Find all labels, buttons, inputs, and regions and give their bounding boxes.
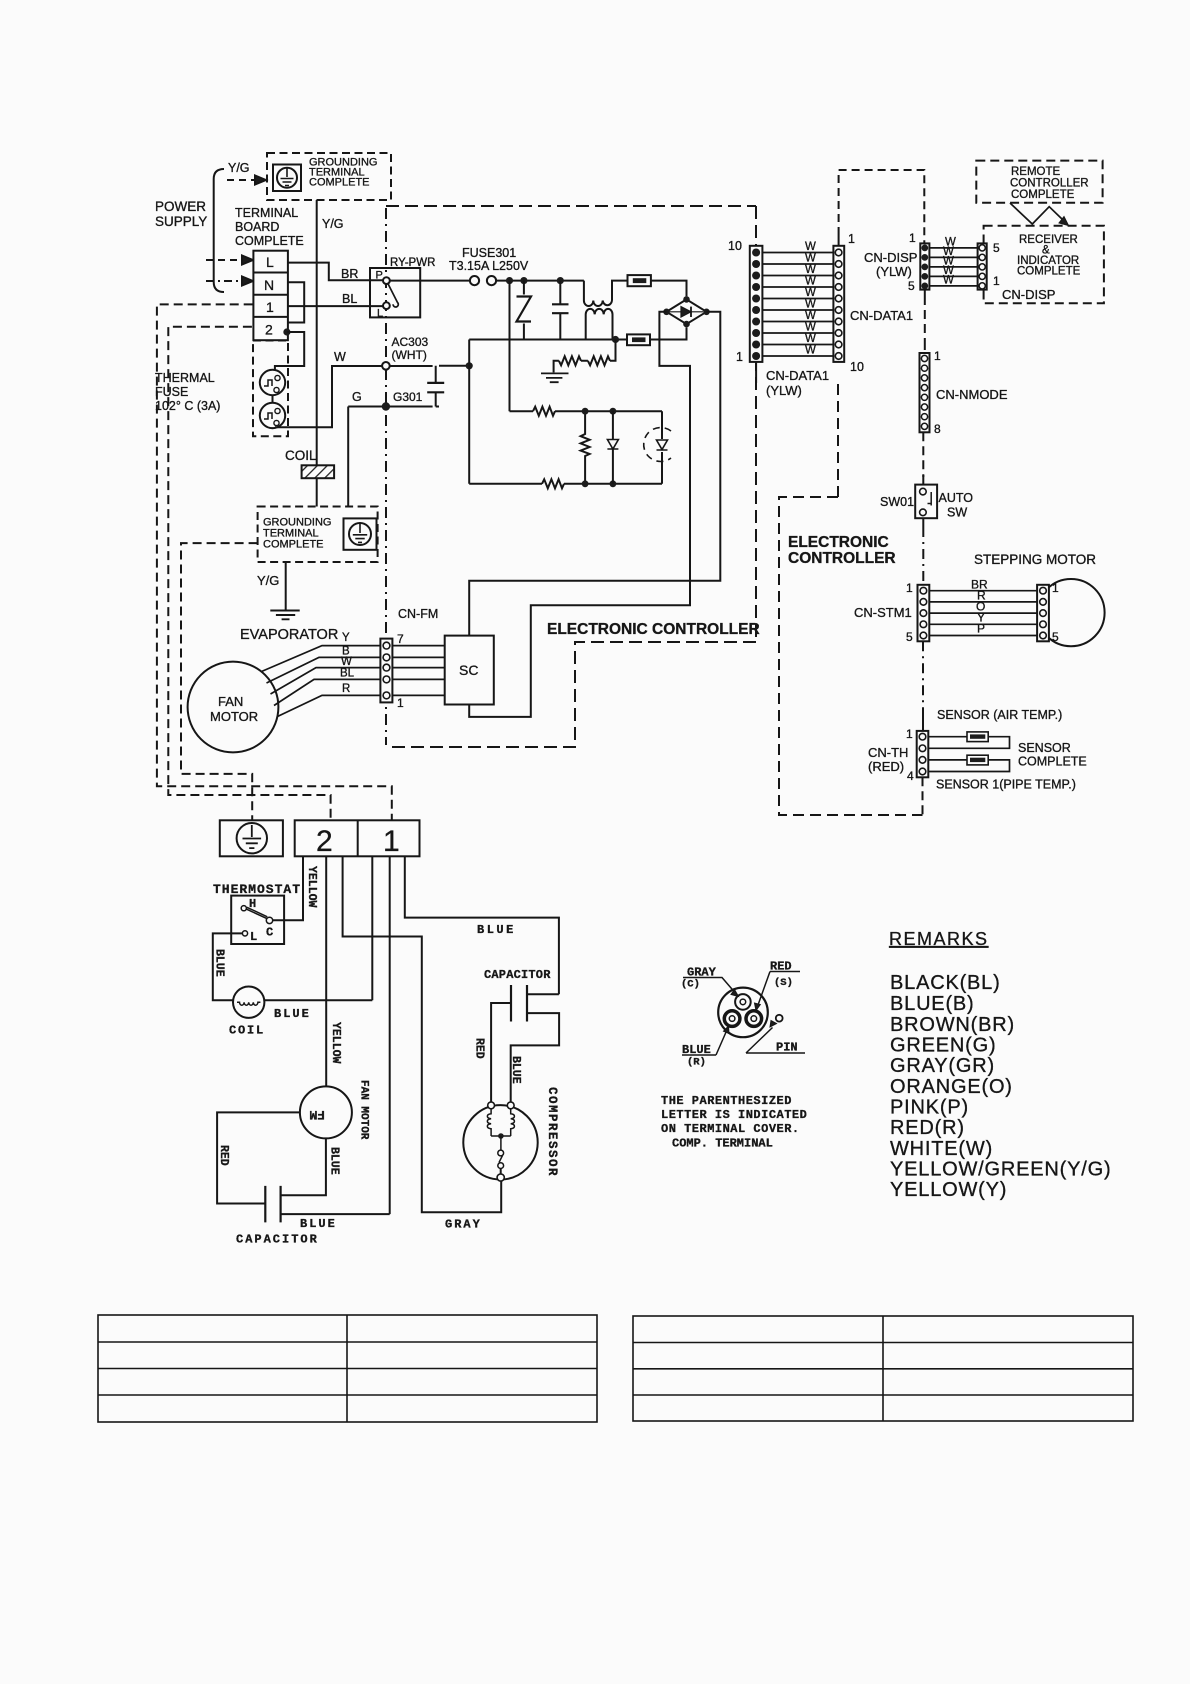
svg-text:P: P [376, 270, 383, 282]
wire compressor capacitor top lead [527, 993, 559, 995]
svg-text:W: W [805, 345, 816, 357]
electronic controller left dash-dot boundary left [385, 208, 387, 745]
svg-text:G: G [352, 390, 362, 404]
svg-text:(WHT): (WHT) [392, 348, 427, 362]
svg-text:1: 1 [993, 274, 1000, 288]
svg-text:5: 5 [993, 241, 1000, 255]
wire fan capacitor to terminal 1 wire [281, 1213, 390, 1215]
svg-text:W: W [334, 350, 346, 364]
svg-text:RED(R): RED(R) [890, 1117, 965, 1139]
svg-text:MOTOR: MOTOR [210, 709, 258, 724]
svg-text:FUSE: FUSE [155, 385, 188, 399]
dashed link CN-DISP to CN-NMODE [924, 290, 926, 353]
svg-text:BLUE: BLUE [274, 1007, 311, 1021]
AC303 node wire (W) [381, 365, 433, 367]
stub above CN-DATA1 right solid [838, 235, 840, 246]
varistor Z [517, 281, 532, 340]
svg-text:(YLW): (YLW) [876, 264, 912, 279]
svg-text:BOARD: BOARD [235, 220, 279, 234]
G wire [348, 406, 439, 408]
svg-text:CN-DISP: CN-DISP [864, 250, 917, 265]
ferrite bead bottom [627, 334, 650, 345]
svg-text:FM: FM [309, 1107, 325, 1122]
ferrite bead top [628, 275, 651, 286]
thermal fuse 1 [260, 370, 285, 395]
svg-text:N: N [264, 277, 274, 293]
wire compressor capacitor right loop to S (blue) [511, 1013, 559, 1101]
table left [98, 1315, 597, 1422]
stepping motor circle [1037, 579, 1104, 646]
wire terminal 2 middle to fan motor (yellow) [325, 856, 327, 1086]
jumper bracket terminal N [288, 282, 304, 322]
opto feeder vertical from top wire [509, 281, 511, 412]
svg-text:COMPRESSOR: COMPRESSOR [545, 1087, 559, 1177]
svg-text:(S): (S) [774, 977, 793, 989]
RY-PWR L terminal [383, 302, 390, 309]
svg-text:W: W [341, 656, 352, 668]
svg-text:FAN MOTOR: FAN MOTOR [358, 1080, 370, 1140]
svg-text:POWER: POWER [155, 199, 206, 214]
photocoupler LED [644, 428, 671, 462]
svg-text:BLUE: BLUE [213, 949, 226, 977]
fan motor circle [188, 662, 279, 753]
svg-text:COMPLETE: COMPLETE [263, 539, 324, 551]
electronic controller left dashed boundary bottom-right step [388, 642, 756, 747]
earth terminal box (bottom) [220, 820, 283, 856]
FM fan motor circle [300, 1086, 352, 1138]
electronic controller left dashed boundary right [755, 206, 757, 642]
svg-text:C: C [266, 926, 273, 940]
svg-text:SW01: SW01 [880, 495, 914, 509]
wire terminal L to RY-PWR P (BR) [288, 263, 383, 281]
svg-text:1: 1 [1052, 581, 1059, 595]
svg-text:W: W [805, 241, 816, 253]
wire ferrite bottom to bridge bottom vertex [650, 327, 687, 339]
svg-text:BLUE: BLUE [509, 1056, 522, 1084]
junction dots opto network [582, 408, 589, 415]
outdoor unit outer dashed boundary [157, 304, 392, 820]
fan motor lead BL [274, 679, 380, 705]
svg-text:CN-DATA1: CN-DATA1 [850, 308, 913, 323]
electronic controller right dashed link up to CN-DATA1 [837, 383, 839, 497]
wires CN-FM to SC [392, 646, 444, 696]
dash-dot arrow into terminal N [206, 280, 245, 282]
junction dot W node [466, 362, 473, 369]
svg-text:CN-FM: CN-FM [398, 607, 438, 621]
connector CN-STM1 [918, 585, 930, 642]
grounding terminal complete box (top) [267, 153, 391, 200]
svg-text:Y: Y [342, 632, 350, 644]
svg-text:7: 7 [397, 632, 404, 646]
svg-text:1: 1 [848, 232, 855, 246]
svg-text:W: W [805, 333, 816, 345]
svg-text:L: L [377, 308, 383, 320]
svg-text:5: 5 [906, 630, 913, 644]
svg-text:BLUE: BLUE [300, 1217, 337, 1231]
svg-text:1: 1 [909, 231, 916, 245]
outdoor unit inner dashed boundary [168, 327, 330, 821]
wires CN-STM1 to stepping motor [929, 591, 1037, 636]
junction dot lower wire ground chain [612, 336, 619, 343]
svg-text:COMPLETE: COMPLETE [309, 177, 370, 189]
infrared zigzag arrow [1010, 203, 1063, 224]
svg-text:L: L [250, 930, 257, 944]
svg-text:W: W [805, 253, 816, 265]
wire terminal 1 to RY-PWR L (BL) [288, 305, 383, 307]
svg-text:ON TERMINAL COVER.: ON TERMINAL COVER. [661, 1122, 800, 1136]
svg-text:TERMINAL: TERMINAL [235, 206, 298, 220]
connector CN-DISP (YLW) [920, 243, 929, 289]
svg-text:REMOTE: REMOTE [1011, 166, 1061, 178]
fan capacitor [265, 1186, 280, 1223]
svg-text:COMP. TERMINAL: COMP. TERMINAL [672, 1137, 773, 1151]
RY-PWR switch arm [388, 284, 398, 307]
svg-text:W: W [805, 299, 816, 311]
svg-text:YELLOW(Y): YELLOW(Y) [890, 1179, 1007, 1201]
svg-text:BL: BL [342, 292, 357, 306]
stub below CN-DATA1 left [755, 362, 757, 383]
sensor element air temp [967, 732, 988, 742]
pin detail [776, 1015, 783, 1022]
switch SW01 (auto sw) [915, 485, 937, 519]
svg-text:CONTROLLER: CONTROLLER [1010, 178, 1089, 190]
remote controller complete dashed box [976, 161, 1102, 203]
dashed arrow to grounding terminal [227, 179, 258, 181]
receiver and indicator complete dashed box [984, 226, 1104, 304]
svg-text:RED: RED [473, 1038, 486, 1059]
svg-text:2: 2 [265, 322, 273, 338]
svg-text:W: W [805, 310, 816, 322]
svg-text:CN-DISP: CN-DISP [1002, 287, 1055, 302]
junction dot top wire / capacitor [557, 277, 564, 284]
RY-PWR P terminal [383, 277, 390, 284]
svg-text:COIL: COIL [285, 448, 317, 463]
wire terminal 2 right to compressor (gray) [343, 856, 502, 1212]
svg-text:CN-DATA1: CN-DATA1 [766, 368, 829, 383]
svg-text:AC303: AC303 [392, 335, 429, 349]
svg-text:REMARKS: REMARKS [889, 929, 989, 949]
electronic controller right dashed boundary top [779, 497, 923, 815]
fan motor lead B [267, 657, 381, 683]
svg-text:CONTROLLER: CONTROLLER [788, 550, 896, 567]
svg-text:COMPLETE: COMPLETE [1011, 189, 1075, 201]
connector CN-DATA1 right [833, 246, 844, 362]
dashed link CN-DATA1 right up and over to CN-DISP [839, 170, 925, 243]
svg-text:P: P [977, 622, 985, 636]
sensor loop pipe temp [928, 760, 1009, 772]
wire ferrite top to bridge [651, 281, 687, 297]
dashed arrow into terminal L [206, 259, 245, 261]
power supply brace [214, 169, 224, 292]
connector CN-DATA1 (YLW) left [750, 246, 763, 362]
svg-text:CN-NMODE: CN-NMODE [936, 387, 1008, 402]
fan motor lead Y [262, 646, 381, 672]
dashed link CN-STM1 to CN-TH [922, 641, 924, 714]
svg-text:THERMAL: THERMAL [155, 371, 215, 385]
zener diode in opto network [607, 411, 618, 484]
fuse FUSE301 [470, 276, 496, 285]
sensor loop air temp [928, 737, 1009, 749]
wires W between CN-DATA1 halves [762, 253, 833, 357]
Y/G wire below coil [316, 478, 318, 506]
compressor circle [463, 1102, 537, 1181]
connector CN-TH (RED) [917, 731, 929, 777]
svg-text:CAPACITOR: CAPACITOR [484, 968, 551, 982]
svg-text:STEPPING MOTOR: STEPPING MOTOR [974, 552, 1096, 567]
opto lower rail with resistor [469, 479, 662, 488]
svg-text:1: 1 [383, 825, 400, 858]
svg-text:BR: BR [341, 267, 358, 281]
svg-text:W: W [805, 276, 816, 288]
RY-PWR relay box [370, 268, 420, 317]
compressor terminal detail circle [718, 988, 768, 1038]
G301 junction dot [382, 402, 390, 410]
wire RY-PWR P to fuse [390, 280, 470, 282]
svg-text:1: 1 [736, 350, 743, 364]
Y/G stem to earth [285, 562, 287, 610]
svg-text:1: 1 [266, 299, 274, 315]
wire thermal fuse 2 to W node [273, 366, 382, 428]
svg-text:YELLOW: YELLOW [305, 866, 318, 908]
wire terminal 1 middle to fan capacitor (blue) [389, 856, 391, 1214]
connector stepping motor [1037, 585, 1049, 642]
wire fan motor left to capacitor (red) [217, 1112, 300, 1203]
terminal strip 2|1 box [295, 820, 420, 858]
W labels CN-DISP [943, 237, 956, 287]
svg-text:Y/G: Y/G [257, 573, 279, 588]
thermostat box [231, 896, 284, 944]
svg-text:W: W [943, 275, 954, 287]
svg-text:(YLW): (YLW) [766, 383, 802, 398]
svg-text:SC: SC [459, 662, 478, 678]
svg-text:EVAPORATOR: EVAPORATOR [240, 627, 338, 643]
svg-text:AUTO: AUTO [939, 491, 974, 505]
main top wire after fuse [496, 280, 584, 282]
lower main wire [469, 339, 627, 341]
svg-text:SW: SW [947, 506, 967, 520]
svg-text:W: W [805, 322, 816, 334]
connector CN-NMODE [920, 353, 930, 432]
stepping motor wire labels [971, 578, 988, 636]
svg-text:10: 10 [728, 239, 742, 253]
svg-text:SENSOR 1(PIPE TEMP.): SENSOR 1(PIPE TEMP.) [936, 778, 1076, 792]
svg-text:L: L [266, 254, 274, 270]
svg-text:BL: BL [340, 668, 355, 680]
wire terminal 2 to thermal fuse [275, 332, 304, 370]
coil hatched block [302, 465, 335, 478]
svg-text:WHITE(W): WHITE(W) [890, 1138, 993, 1160]
svg-text:THE PARENTHESIZED: THE PARENTHESIZED [661, 1094, 792, 1108]
svg-text:1: 1 [397, 696, 404, 710]
svg-text:ELECTRONIC: ELECTRONIC [788, 534, 889, 551]
svg-text:5: 5 [1052, 630, 1059, 644]
wire bridge right vertex down to SC top rail [469, 312, 720, 636]
svg-text:RED: RED [217, 1145, 230, 1166]
svg-text:8: 8 [934, 422, 941, 436]
wire compressor capacitor left lead to C (red) [491, 1003, 511, 1102]
svg-text:YELLOW: YELLOW [329, 1022, 342, 1064]
terminal board complete box [253, 251, 288, 341]
earth ground symbol (psu) [541, 373, 569, 382]
indoor unit third dashed boundary [181, 543, 258, 820]
fan motor lead W [271, 668, 381, 694]
choke coil top winding [584, 281, 628, 306]
AC303 terminal circle [382, 362, 390, 370]
svg-text:BLUE: BLUE [328, 1147, 341, 1175]
svg-text:PINK(P): PINK(P) [890, 1097, 969, 1119]
opto loop right side with LED [661, 411, 663, 484]
svg-text:CN-TH: CN-TH [868, 745, 908, 760]
svg-text:COMPLETE: COMPLETE [1018, 755, 1087, 769]
svg-text:(RED): (RED) [868, 759, 904, 774]
G wire down to grounding terminal [347, 407, 349, 507]
svg-text:Y/G: Y/G [228, 161, 250, 175]
svg-text:BLUE(B): BLUE(B) [890, 993, 975, 1015]
svg-text:T3.15A L250V: T3.15A L250V [449, 259, 529, 273]
grounding terminal symbol (middle) [344, 518, 377, 549]
W labels CN-DATA1 [805, 241, 816, 357]
bridge rectifier D301 [663, 296, 710, 327]
svg-text:SENSOR: SENSOR [1018, 741, 1071, 755]
svg-text:COMPLETE: COMPLETE [235, 234, 304, 248]
fan lead labels [340, 632, 355, 695]
svg-text:102° C (3A): 102° C (3A) [155, 399, 220, 413]
svg-text:COIL: COIL [229, 1024, 265, 1038]
svg-text:SENSOR (AIR TEMP.): SENSOR (AIR TEMP.) [937, 708, 1062, 722]
compressor capacitor [511, 985, 527, 1022]
svg-text:Y/G: Y/G [322, 217, 344, 231]
wire bridge left vertex zigzag down [469, 312, 690, 717]
svg-text:FAN: FAN [218, 694, 243, 709]
svg-text:(R): (R) [687, 1057, 706, 1069]
svg-text:SUPPLY: SUPPLY [155, 214, 207, 229]
svg-text:RY-PWR: RY-PWR [390, 257, 435, 269]
svg-text:BLACK(BL): BLACK(BL) [890, 972, 1001, 994]
fan motor lead R [278, 695, 381, 716]
W node vertical through lower rail [468, 340, 470, 484]
capacitor AC303-G301 [427, 366, 444, 407]
thermal fuse dashed box [253, 341, 288, 437]
electronic controller left dashed boundary top [386, 205, 756, 207]
svg-text:W: W [805, 287, 816, 299]
svg-text:W: W [805, 264, 816, 276]
table right [633, 1316, 1133, 1421]
wires W CN-DISP to receiver [929, 248, 977, 286]
svg-text:2: 2 [316, 825, 333, 858]
wire AC303 to W junction [439, 365, 469, 367]
dashed link CN-NMODE to SW01 [922, 432, 924, 477]
svg-text:GRAY: GRAY [445, 1218, 482, 1232]
svg-text:FUSE301: FUSE301 [462, 246, 516, 260]
svg-text:CAPACITOR: CAPACITOR [236, 1233, 319, 1247]
svg-text:LETTER IS INDICATED: LETTER IS INDICATED [661, 1108, 807, 1122]
svg-text:CN-STM1: CN-STM1 [854, 605, 912, 620]
SC box [445, 636, 494, 705]
svg-text:BROWN(BR): BROWN(BR) [890, 1014, 1015, 1036]
connector CN-FM [380, 639, 392, 703]
svg-text:H: H [249, 897, 256, 911]
svg-text:(C): (C) [681, 979, 700, 991]
svg-text:1: 1 [906, 727, 913, 741]
connector receiver CN-DISP [978, 243, 987, 289]
svg-text:COMPLETE: COMPLETE [1017, 266, 1081, 278]
grounding terminal symbol (top) [273, 165, 301, 192]
resistor vertical in opto network [581, 411, 590, 484]
wire terminal 1 right to compressor capacitor (blue) [405, 856, 559, 994]
coil (bottom) [233, 987, 264, 1018]
svg-text:5: 5 [908, 279, 915, 293]
wire between thermal fuses [272, 395, 274, 403]
svg-text:ELECTRONIC CONTROLLER: ELECTRONIC CONTROLLER [547, 621, 760, 638]
junction dot terminal 2 [283, 328, 290, 335]
dash-dot link SW01 to CN-STM1 [922, 518, 924, 585]
junction dot top wire / varistor [520, 277, 527, 284]
junction dot top wire / opto feed [506, 277, 513, 284]
dashed link CN-TH to bottom boundary [922, 777, 924, 815]
choke coil bottom winding [586, 309, 613, 340]
wire fan motor bottom to capacitor (blue) [281, 1138, 326, 1195]
svg-text:GREEN(G): GREEN(G) [890, 1035, 996, 1057]
Y/G wire from grounding box to coil [316, 200, 318, 465]
grounding terminal complete box (middle) [258, 507, 378, 563]
svg-text:10: 10 [850, 360, 864, 374]
opto upper rail with resistor [510, 407, 663, 416]
remarks color list [890, 972, 1111, 1201]
sensor element pipe temp [967, 755, 988, 765]
wire terminal 1 left to thermostat L and coil (blue) [213, 856, 372, 1000]
svg-text:BLUE: BLUE [477, 923, 516, 937]
svg-text:YELLOW/GREEN(Y/G): YELLOW/GREEN(Y/G) [890, 1159, 1111, 1181]
svg-text:1: 1 [934, 349, 941, 363]
svg-text:ORANGE(O): ORANGE(O) [890, 1076, 1013, 1098]
ground chain resistors [554, 340, 616, 373]
svg-text:4: 4 [907, 769, 914, 783]
thermal fuse 2 [260, 403, 285, 428]
svg-text:R: R [342, 683, 350, 695]
svg-text:G301: G301 [393, 390, 423, 404]
svg-text:1: 1 [906, 581, 913, 595]
svg-text:GRAY(GR): GRAY(GR) [890, 1055, 995, 1077]
capacitor C (line filter) [552, 281, 569, 340]
wire thermostat C to terminal 2 (yellow) [273, 856, 303, 920]
earth ground symbol (evaporator) [270, 611, 299, 620]
